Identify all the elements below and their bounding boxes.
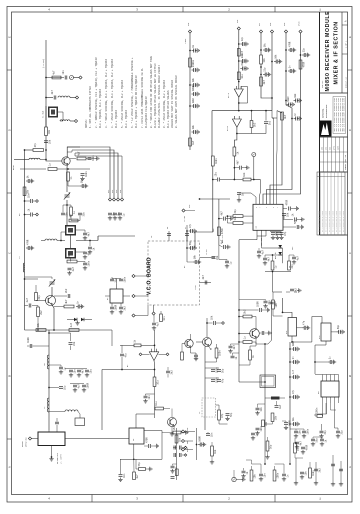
- inductor L8: [65, 410, 78, 412]
- ground: [339, 482, 343, 486]
- svg-text:2. * 100KHZ SPACING, FL1 +: 2. * 100KHZ SPACING, FL1 + TQB11R, FL2 +…: [95, 57, 98, 128]
- svg-text:ENGINEERING: ENGINEERING: [325, 104, 328, 118]
- capacitor C25: [119, 276, 126, 282]
- wire: [273, 272, 283, 293]
- wire: [112, 277, 121, 279]
- svg-text:10n: 10n: [210, 432, 213, 437]
- resistor R50: [250, 470, 257, 481]
- resistor R55: [266, 441, 273, 451]
- wire: [133, 459, 135, 472]
- svg-text:U3 B: U3 B: [226, 125, 229, 131]
- resistor R56: [138, 462, 146, 471]
- svg-text:VALUES MAY VARY IN SPECIAL O: VALUES MAY VARY IN SPECIAL ORDER: [171, 79, 174, 128]
- wire: [270, 231, 282, 233]
- wire: [313, 437, 322, 439]
- svg-text:10k: 10k: [48, 139, 51, 144]
- capacitor C117: [292, 256, 299, 261]
- title block frame: [320, 12, 348, 235]
- wire: [226, 218, 229, 220]
- capacitor C110: [270, 301, 277, 306]
- wire: [264, 344, 266, 430]
- wire: [25, 149, 34, 151]
- resistor R31: [288, 261, 295, 270]
- svg-text:470R: 470R: [303, 61, 306, 67]
- capacitor C62: [320, 430, 327, 435]
- capacitor C35: [240, 53, 248, 63]
- wire: [65, 438, 129, 440]
- connector arrow in-: [166, 353, 169, 356]
- junction: [238, 309, 240, 311]
- wire: [216, 322, 222, 324]
- ground: [210, 460, 214, 464]
- wire: [58, 112, 63, 121]
- inductor L4: [23, 263, 24, 272]
- capacitor ladder y349: [292, 340, 300, 351]
- inductor L6: [47, 355, 49, 369]
- wire: [231, 343, 240, 345]
- wire: [276, 111, 278, 150]
- ground: [184, 430, 188, 434]
- capacitor C72: [59, 367, 66, 370]
- svg-text:SP5: SP5: [188, 23, 190, 26]
- capacitor C14: [118, 213, 125, 216]
- ground: [225, 417, 229, 421]
- svg-text:10u: 10u: [117, 212, 120, 217]
- svg-text:47p: 47p: [124, 353, 127, 358]
- junction: [238, 333, 240, 335]
- wire: [56, 418, 58, 422]
- svg-text:M0850 RECEIVER MODULE: M0850 RECEIVER MODULE: [325, 11, 331, 92]
- wire: [267, 33, 293, 204]
- resistor R35: [160, 314, 167, 322]
- wire: [252, 317, 256, 330]
- svg-text:47p: 47p: [292, 389, 295, 394]
- capacitor C1: [62, 70, 67, 80]
- capacitor C42: [274, 54, 282, 64]
- connector pin P13: [181, 448, 184, 451]
- junction: [66, 204, 68, 206]
- svg-text:100n: 100n: [123, 276, 126, 282]
- svg-text:100n: 100n: [219, 350, 222, 356]
- capacitor C7: [27, 193, 32, 203]
- resistor R57: [133, 472, 140, 480]
- wire: [289, 430, 291, 464]
- wire main vertical net left: [45, 40, 47, 127]
- ground: [73, 388, 77, 392]
- junction: [53, 329, 55, 331]
- wire: [200, 198, 231, 200]
- capacitor C79: [82, 382, 89, 388]
- connector arrow: [36, 200, 39, 203]
- svg-text:33k: 33k: [216, 255, 219, 260]
- svg-text:5: 5: [273, 207, 275, 208]
- wire: [66, 205, 68, 225]
- capacitor C2: [51, 90, 56, 100]
- wire supply net: [189, 33, 191, 150]
- wire emitter: [191, 347, 197, 353]
- wire: [120, 344, 134, 346]
- capacitor C87: [229, 345, 236, 350]
- resistor R44: [249, 350, 256, 360]
- junction: [289, 423, 291, 425]
- wire pin: [265, 230, 267, 236]
- capacitor C94: [206, 432, 213, 437]
- wire: [331, 331, 337, 333]
- wire: [204, 347, 206, 431]
- vco board outline dashed: [148, 241, 200, 305]
- wire: [219, 218, 223, 220]
- ground: [118, 478, 122, 482]
- svg-text:10u: 10u: [63, 385, 66, 390]
- connector arrow J4: [132, 274, 135, 277]
- capacitor C101: [194, 353, 198, 361]
- capacitor C49: [237, 193, 244, 196]
- wire: [160, 311, 162, 314]
- svg-text:4k7: 4k7: [202, 275, 205, 280]
- capacitor C124: [174, 453, 176, 457]
- wire RF input: [14, 159, 29, 161]
- svg-text:6. * L2 25KHZ SPACING, / PRO: 6. * L2 25KHZ SPACING, / PROGRAMMABLE SP…: [131, 57, 134, 128]
- capacitor C122: [174, 446, 176, 450]
- wire: [146, 393, 155, 395]
- svg-text:56p: 56p: [221, 368, 224, 373]
- wire: [263, 33, 301, 204]
- ground: [263, 261, 267, 265]
- wire emitter: [209, 346, 212, 350]
- wire: [54, 306, 64, 308]
- wire: [239, 360, 250, 365]
- capacitor C109: [264, 300, 271, 305]
- wire: [41, 240, 45, 242]
- svg-text:+/- 10PPM: +/- 10PPM: [61, 454, 63, 464]
- wire: [136, 414, 155, 428]
- svg-text:22p: 22p: [291, 264, 294, 269]
- wire pin: [334, 397, 336, 403]
- capacitor C36: [240, 61, 248, 71]
- ground: [292, 260, 296, 264]
- resistor R12: [37, 307, 44, 317]
- ground: [237, 198, 241, 202]
- wire: [206, 318, 208, 338]
- capacitor C123: [179, 446, 181, 450]
- wire: [260, 33, 262, 55]
- capacitor ladder y424: [292, 416, 300, 426]
- wire: [239, 309, 259, 311]
- capacitor C98: [302, 428, 309, 434]
- capacitor C85: [217, 378, 224, 383]
- inductor L1: [58, 96, 70, 98]
- svg-text:22p: 22p: [241, 36, 244, 41]
- ground: [228, 349, 232, 353]
- svg-text:47p: 47p: [189, 223, 192, 228]
- capacitor C69: [220, 211, 225, 221]
- svg-text:2k2: 2k2: [268, 120, 271, 125]
- wire: [49, 365, 61, 367]
- svg-text:10k: 10k: [275, 54, 278, 59]
- wire: [273, 309, 283, 316]
- op-amp U2: [234, 86, 243, 97]
- title block: approvals table: [320, 137, 348, 172]
- wire: [315, 341, 326, 362]
- wire: [280, 397, 286, 399]
- resistor R51: [273, 470, 280, 481]
- ground: [82, 388, 86, 392]
- resistor R49: [211, 446, 218, 456]
- wire: [309, 462, 311, 468]
- ground: [282, 477, 286, 481]
- capacitor C130: [339, 469, 343, 471]
- transistor Q1: [62, 157, 70, 165]
- junction: [238, 43, 240, 45]
- resistor R36: [218, 227, 225, 236]
- svg-text:470R: 470R: [289, 41, 292, 47]
- wire pin: [276, 150, 279, 204]
- junction: [260, 49, 262, 51]
- wire: [67, 319, 74, 321]
- wire branch: [46, 97, 53, 99]
- wire: [48, 430, 50, 432]
- svg-text:56p: 56p: [230, 412, 233, 417]
- ground: [69, 373, 73, 377]
- svg-text:J2: J2: [150, 236, 153, 238]
- capacitor C86: [226, 412, 233, 417]
- svg-text:U4: U4: [256, 226, 258, 228]
- wire: [246, 460, 252, 464]
- resistor R52: [294, 443, 301, 453]
- wire: [154, 387, 156, 419]
- wire: [185, 440, 194, 442]
- wire: [33, 200, 36, 202]
- wire: [233, 156, 235, 180]
- capacitor ladder y397: [292, 389, 300, 399]
- wire: [294, 438, 296, 443]
- resistor R8: [70, 207, 77, 216]
- svg-text:100R: 100R: [114, 304, 117, 310]
- wire: [274, 466, 276, 470]
- svg-text:33k: 33k: [37, 323, 40, 328]
- capacitor C10: [61, 212, 68, 217]
- resistor R54: [181, 352, 184, 360]
- wire: [70, 383, 84, 385]
- ground: [301, 450, 305, 454]
- ground: [80, 177, 84, 181]
- resistor R22: [211, 156, 218, 166]
- wire: [239, 316, 243, 318]
- junction: [260, 66, 262, 68]
- wire: [332, 455, 334, 482]
- capacitor C102: [295, 441, 302, 446]
- capacitor C48: [287, 96, 295, 107]
- wire: [151, 445, 155, 447]
- svg-text:2k2: 2k2: [123, 306, 126, 311]
- capacitor C80: [120, 353, 127, 358]
- ground: [331, 482, 335, 486]
- junction: [24, 200, 26, 202]
- junction: [186, 247, 188, 249]
- resistor R4: [77, 151, 86, 160]
- wire: [275, 464, 285, 474]
- wire: [243, 222, 253, 224]
- junction: [133, 458, 135, 460]
- svg-text:+7.5V: +7.5V: [183, 215, 186, 222]
- wire: [49, 411, 65, 413]
- wire: [219, 420, 228, 424]
- wire: [173, 447, 177, 449]
- ground: [336, 434, 340, 438]
- svg-text:IF OUT: IF OUT: [187, 427, 189, 434]
- capacitor C40: [263, 42, 271, 52]
- connector arrow in+: [139, 353, 142, 356]
- svg-text:4k7: 4k7: [233, 345, 236, 350]
- svg-text:6: 6: [266, 207, 268, 208]
- junction: [264, 343, 266, 345]
- svg-text:10k: 10k: [286, 212, 289, 217]
- capacitor C77: [85, 369, 92, 374]
- svg-text:2: 2: [228, 498, 230, 501]
- wire: [123, 295, 130, 297]
- wire: [116, 279, 118, 285]
- wire: [251, 179, 260, 181]
- capacitor C4: [80, 178, 88, 188]
- capacitor C19: [68, 267, 75, 272]
- ground: [294, 434, 298, 438]
- wire pin: [322, 397, 324, 403]
- capacitor C67: [202, 275, 207, 285]
- resistor R53: [309, 468, 316, 478]
- wire: [76, 236, 98, 241]
- junction: [45, 159, 47, 161]
- svg-text:B: B: [9, 375, 12, 377]
- wire: [162, 432, 173, 434]
- junction: [300, 54, 302, 56]
- svg-text:33k: 33k: [274, 301, 277, 306]
- wire: [135, 305, 148, 316]
- capacitor C41: [263, 67, 271, 77]
- svg-text:4u7: 4u7: [261, 250, 264, 255]
- wire: [51, 287, 53, 296]
- svg-text:22p: 22p: [264, 67, 267, 72]
- wire: [51, 446, 53, 458]
- connector pin P1: [108, 198, 111, 201]
- wire vco right pin: [200, 257, 216, 259]
- svg-text:SP10: SP10: [299, 22, 301, 26]
- wire: [238, 342, 240, 382]
- svg-text:U2 A: U2 A: [227, 92, 230, 98]
- resistor R27: [281, 112, 288, 120]
- svg-text:47p: 47p: [34, 143, 37, 148]
- wire: [321, 424, 323, 431]
- wire: [35, 285, 37, 293]
- svg-text:100R: 100R: [86, 382, 89, 388]
- wire: [288, 255, 290, 261]
- capacitor C26: [110, 304, 117, 310]
- diode D2: [81, 318, 84, 322]
- svg-text:100n: 100n: [277, 472, 280, 478]
- wire: [86, 158, 95, 160]
- ground: [241, 477, 245, 481]
- capacitor C55: [280, 231, 287, 236]
- svg-text:4. * 25KHZ SPACING, FL3 +: 4. * 25KHZ SPACING, FL3 + TQB11R, FL2 + …: [111, 58, 114, 128]
- svg-text:470R: 470R: [305, 444, 308, 450]
- wire: [265, 397, 271, 399]
- wire: [27, 345, 30, 347]
- svg-text:10n: 10n: [112, 212, 115, 217]
- capacitor C5: [81, 171, 88, 177]
- resistor R45: [243, 309, 252, 318]
- wire: [205, 367, 219, 369]
- capacitor ladder y377: [292, 369, 300, 379]
- svg-text:FL3 + TQB11R: FL3 + TQB11R: [125, 109, 128, 128]
- wire: [335, 403, 339, 431]
- crystal filter FL1: [288, 318, 297, 337]
- svg-text:100n: 100n: [260, 425, 263, 431]
- ground: [319, 434, 323, 438]
- inductor L7: [47, 398, 49, 412]
- junction: [272, 271, 274, 273]
- wire output 2: [234, 127, 237, 147]
- capacitor C59: [302, 320, 310, 330]
- wire: [120, 303, 122, 307]
- wire: [153, 315, 155, 323]
- svg-text:10k: 10k: [210, 315, 213, 320]
- capacitor C89: [262, 331, 264, 335]
- wire: [207, 322, 213, 324]
- wire: [233, 470, 235, 477]
- wire: [181, 432, 184, 434]
- wire: [45, 136, 47, 160]
- wire: [171, 409, 173, 418]
- ground: [152, 326, 156, 330]
- svg-text:7. CR/L2 B1R1 PROGRAMMABLE S: 7. CR/L2 B1R1 PROGRAMMABLE SPACING DB FL: [141, 67, 144, 128]
- svg-text:470R: 470R: [145, 437, 148, 443]
- svg-text:4k7: 4k7: [280, 231, 283, 236]
- wire vco pin: [168, 231, 170, 241]
- wire pin: [330, 397, 332, 403]
- wire left bias net: [24, 150, 26, 225]
- transistor Q11: [185, 339, 193, 347]
- svg-text:10u: 10u: [292, 416, 295, 421]
- ground: [279, 236, 283, 240]
- svg-text:10n: 10n: [163, 316, 166, 321]
- svg-text:DWG NO:: DWG NO:: [322, 80, 324, 88]
- resistor R30: [271, 261, 278, 270]
- capacitor C121: [198, 436, 206, 447]
- svg-text:DATE: DATE: [336, 146, 339, 150]
- ground: [77, 373, 81, 377]
- svg-text:22p: 22p: [340, 430, 343, 435]
- wire base: [36, 300, 46, 302]
- junction: [236, 133, 238, 135]
- wire: [230, 344, 232, 346]
- wire: [176, 428, 178, 480]
- wire left net: [24, 225, 26, 330]
- junction: [196, 444, 198, 446]
- resistor R58: [173, 425, 181, 434]
- wire: [264, 255, 266, 258]
- wire pin: [259, 180, 262, 205]
- capacitor C76: [77, 369, 84, 374]
- junction: [234, 179, 236, 181]
- wire op-amp chain: [238, 30, 240, 89]
- wire bundle: [75, 153, 122, 198]
- ground: [95, 156, 99, 160]
- wire pin: [239, 193, 256, 204]
- wire: [297, 327, 303, 329]
- resistor R43: [243, 336, 252, 343]
- wire: [77, 262, 85, 263]
- wire: [282, 421, 286, 422]
- wire: [258, 403, 266, 405]
